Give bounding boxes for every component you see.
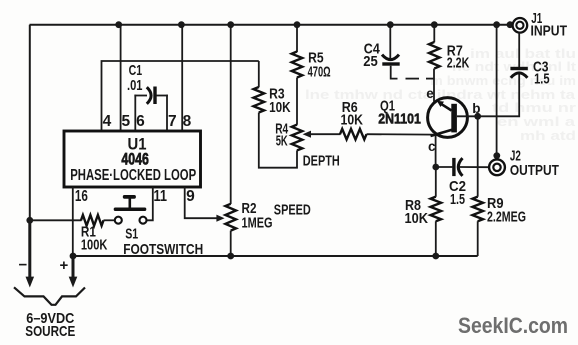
wire: base to C3 bottom [478, 73, 520, 116]
svg-text:5: 5 [121, 113, 130, 130]
arrowhead: pin 9 wiper to R2 [216, 215, 224, 222]
wire: R2 top lead from rail [230, 25, 232, 204]
svg-text:10K: 10K [269, 99, 291, 116]
connector J1 inner circle [516, 22, 523, 29]
svg-text:DEPTH: DEPTH [303, 152, 340, 169]
wire: base lead [457, 115, 478, 117]
resistor R6 [340, 129, 367, 140]
svg-text:8: 8 [183, 113, 192, 130]
node: top rail junction C4 [387, 21, 394, 28]
node: bottom rail R2 junction [227, 253, 234, 260]
wire: left rail vertical [29, 25, 31, 221]
wire: pin 8 to rail [181, 25, 183, 132]
svg-text:1MEG: 1MEG [242, 215, 273, 232]
wire: R3 top lead [258, 61, 260, 87]
svg-text:6: 6 [136, 113, 145, 130]
capacitor C4 top lead [389, 25, 391, 59]
svg-text:2.2K: 2.2K [447, 55, 470, 72]
capacitor C1 curved plate [147, 87, 151, 104]
node: top rail junction pin5 [115, 21, 122, 28]
transistor Q1 emitter arrowhead [437, 101, 444, 107]
svg-text:7: 7 [168, 113, 177, 130]
wire: R8 lead [435, 167, 437, 197]
IC U1 box [64, 131, 201, 187]
svg-text:m bnwm echg ncu im: m bnwm echg ncu im [430, 73, 576, 88]
connector J2 outer ring [489, 159, 505, 175]
wire: dashed link C4 to emitter [406, 78, 420, 80]
source bracket [14, 287, 85, 305]
svg-text:−: − [19, 257, 28, 274]
potentiometer R2 [225, 204, 236, 231]
svg-text:2.2MEG: 2.2MEG [487, 209, 526, 226]
node: top rail junction R5 [294, 21, 301, 28]
capacitor C2 curved plate [458, 158, 462, 176]
node: bottom rail R8 junction [432, 253, 439, 260]
svg-text:11: 11 [154, 188, 168, 205]
wire: emitter lead [433, 69, 435, 102]
svg-text:SPEED: SPEED [274, 201, 311, 218]
wire: bottom rail [73, 255, 478, 257]
svg-text:470Ω: 470Ω [308, 64, 331, 81]
resistor R5 [292, 52, 303, 78]
switch S1 stem [129, 198, 132, 208]
node: bottom rail + junction [70, 253, 77, 260]
switch S1 button cap [123, 195, 136, 199]
resistor R3 [254, 87, 265, 113]
capacitor C4 straight plate [382, 62, 399, 65]
wire: R8 bottom lead [435, 221, 437, 256]
node: dot above J2 [493, 152, 500, 159]
connector J1 outer ring [513, 18, 528, 33]
wire: R4 bottom to R3 bottom [259, 113, 297, 168]
wire: R9 bottom lead [477, 221, 479, 256]
potentiometer R4 [292, 125, 303, 151]
svg-text:10K: 10K [405, 210, 429, 227]
wire: C2 left lead [436, 166, 453, 168]
wire: C4 bottom lead [391, 66, 398, 79]
capacitor C1 straight plate [153, 87, 156, 105]
svg-text:INPUT: INPUT [531, 23, 568, 40]
node: base junction [474, 113, 481, 120]
switch S1 bridge bar [114, 208, 147, 212]
resistor R8 [431, 197, 442, 222]
node: left rail / R1 junction [26, 217, 33, 224]
wire: pin 5 to rail [120, 25, 122, 132]
svg-text:b: b [472, 101, 480, 116]
wire: R5 to R4 [296, 78, 298, 125]
wire: C1 left lead [134, 95, 147, 97]
wire: pin 4 up [102, 61, 259, 132]
wire: top rail [30, 24, 513, 26]
capacitor C2 straight plate [452, 158, 455, 176]
svg-text:OUTPUT: OUTPUT [510, 162, 559, 179]
svg-text:100K: 100K [81, 237, 108, 254]
switch S1 right contact [140, 217, 147, 224]
capacitor C1 loop wire right (pin 7) [166, 95, 168, 132]
wire: R1 right lead [104, 219, 115, 221]
node: top rail junction pin8 [178, 21, 185, 28]
wire: collector lead down [435, 135, 437, 167]
resistor R1 [81, 215, 104, 226]
capacitor C4 curved plate [382, 55, 399, 60]
transistor Q1 emitter diagonal [440, 103, 452, 110]
arrowhead: R4 wiper [303, 131, 311, 138]
bleed-through ghost text [305, 46, 577, 143]
wire: C2 right lead to J2 [459, 166, 489, 168]
wire: J2 drop from rail [496, 25, 498, 156]
transistor Q1 collector diagonal [431, 130, 453, 136]
svg-text:SOURCE: SOURCE [25, 323, 75, 340]
capacitor C3 straight plate [510, 67, 527, 70]
svg-text:5K: 5K [276, 133, 288, 150]
resistor R7 [429, 42, 440, 69]
battery plus arrow stem [72, 256, 75, 278]
svg-text:SeekIC.com: SeekIC.com [458, 313, 568, 338]
svg-text:hc ndt wdh anl lt: hc ndt wdh anl lt [452, 59, 577, 74]
wire: R5 top lead [296, 25, 298, 52]
wire: R2 bottom lead [230, 231, 232, 256]
svg-text:1.5: 1.5 [450, 191, 465, 208]
wire: R6 right lead to Q1 [367, 133, 434, 135]
node: top rail junction J2 drop [493, 21, 500, 28]
wire: R7 top lead [433, 25, 435, 43]
svg-text:9: 9 [186, 188, 195, 205]
switch S1 left contact [115, 217, 122, 224]
svg-text:16: 16 [75, 188, 88, 205]
svg-text:10K: 10K [341, 112, 364, 129]
battery minus arrowhead [26, 277, 35, 288]
wire: R9 top lead from base node [477, 116, 479, 197]
transistor Q1 circle [428, 98, 468, 138]
wire: R1 left lead [30, 219, 82, 221]
resistor R9 [472, 197, 483, 222]
capacitor C1 loop wire left (pin 6) [134, 95, 136, 132]
wire: pin 11 down [147, 187, 153, 220]
svg-text:25: 25 [363, 53, 378, 70]
wire: pin 16 down [72, 187, 74, 256]
wire: wiper to R6 [309, 133, 341, 135]
svg-text:mh atd: mh atd [520, 128, 576, 143]
node: top rail junction R2 [227, 21, 234, 28]
battery minus arrow stem [28, 221, 31, 278]
node: top rail junction R7 [431, 21, 438, 28]
battery plus arrowhead [69, 277, 78, 288]
svg-text:+: + [60, 257, 69, 274]
wire: C1 right lead [157, 95, 168, 97]
svg-text:2N1101: 2N1101 [378, 111, 421, 128]
svg-text:e: e [426, 86, 434, 101]
node: collector / C2 / R8 junction [432, 164, 439, 171]
node: rail end dot at J1 [507, 21, 514, 28]
wire: pin 9 down [185, 187, 218, 218]
transistor Q1 base bar [451, 104, 457, 133]
capacitor C3 curved plate [511, 73, 528, 78]
svg-text:1.5: 1.5 [534, 70, 550, 87]
svg-text:PHASE·LOCKED LOOP: PHASE·LOCKED LOOP [70, 167, 196, 184]
connector J2 inner circle [493, 164, 500, 171]
svg-text:c: c [428, 139, 436, 154]
svg-text:.01: .01 [127, 77, 143, 94]
svg-text:td hmu nr: td hmu nr [492, 100, 576, 115]
svg-text:4: 4 [103, 113, 112, 130]
wire: J1 to C3 [518, 33, 520, 67]
